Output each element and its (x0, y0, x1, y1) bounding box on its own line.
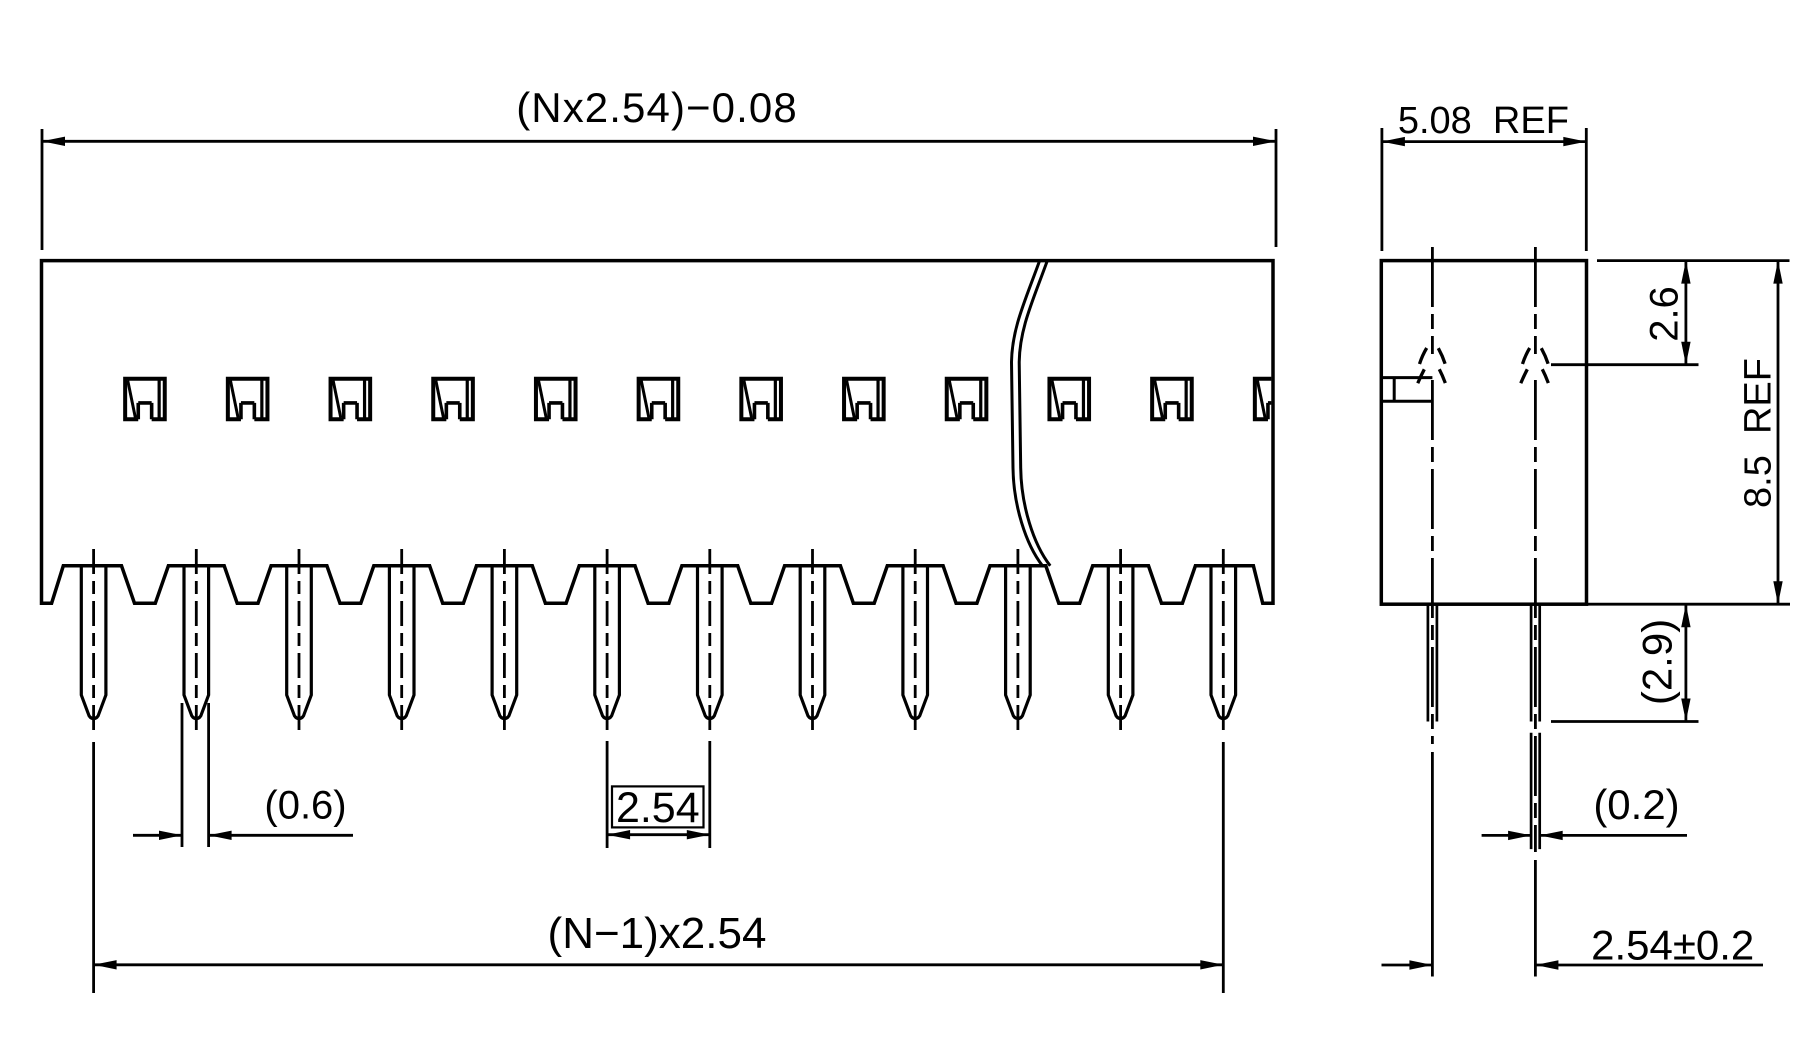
svg-text:2.54: 2.54 (616, 784, 700, 832)
svg-text:8.5 REF: 8.5 REF (1738, 358, 1780, 508)
svg-text:(Nx2.54)−0.08: (Nx2.54)−0.08 (516, 84, 798, 131)
svg-text:2.6: 2.6 (1643, 286, 1687, 342)
svg-text:2.54±0.2: 2.54±0.2 (1591, 922, 1754, 969)
svg-text:(N−1)x2.54: (N−1)x2.54 (548, 909, 767, 958)
svg-text:5.08 REF: 5.08 REF (1398, 100, 1569, 142)
svg-text:(2.9): (2.9) (1634, 619, 1681, 705)
svg-text:(0.2): (0.2) (1593, 781, 1679, 828)
svg-text:(0.6): (0.6) (264, 784, 346, 828)
